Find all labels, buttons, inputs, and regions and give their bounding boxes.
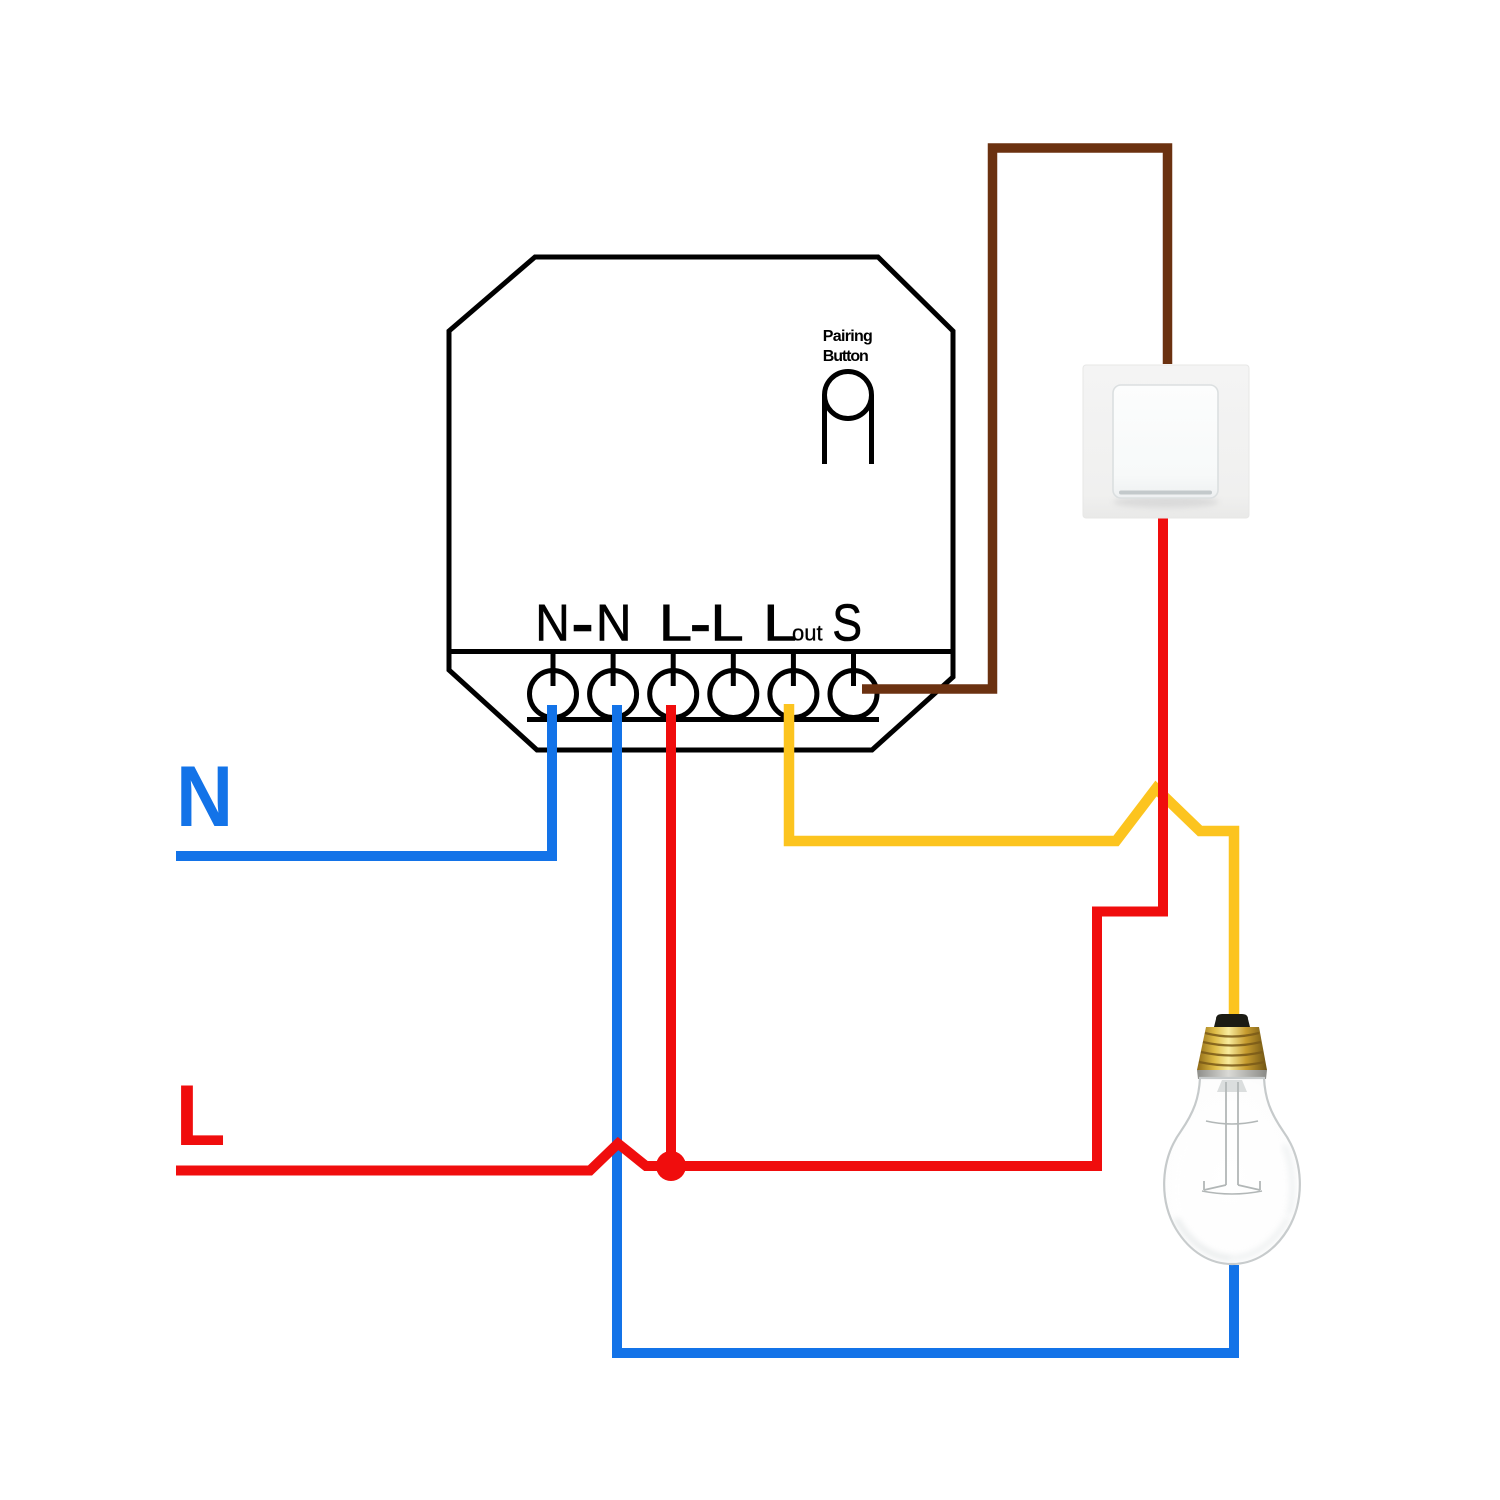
svg-text:N: N xyxy=(596,594,632,652)
svg-text:N: N xyxy=(176,748,233,845)
svg-text:out: out xyxy=(792,621,823,646)
svg-text:N: N xyxy=(535,594,570,652)
svg-text:L: L xyxy=(710,594,744,652)
svg-text:L: L xyxy=(659,594,693,652)
svg-text:Button: Button xyxy=(823,348,869,365)
svg-text:L: L xyxy=(176,1067,226,1163)
svg-text:S: S xyxy=(832,595,862,653)
svg-text:Pairing: Pairing xyxy=(823,328,873,345)
